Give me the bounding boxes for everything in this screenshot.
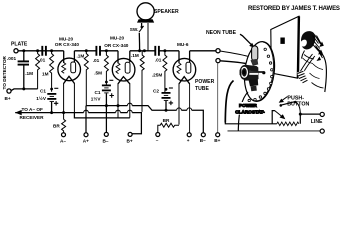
svg-text:RECEIVER: RECEIVER [20, 115, 45, 120]
wire motor lead right [238, 92, 248, 131]
node junction .5M [105, 49, 108, 52]
svg-text:A–: A– [60, 139, 66, 144]
svg-text:B+: B+ [214, 138, 220, 143]
power clarostat label [232, 102, 272, 115]
resistor power clarostat [277, 122, 299, 126]
wire B+ wire [11, 89, 37, 91]
svg-text:MU-6: MU-6 [177, 42, 189, 47]
svg-text:1½V: 1½V [36, 95, 47, 101]
resistor .1M plate load 1 [84, 51, 88, 106]
scanning disk [241, 40, 277, 103]
svg-text:OR CX-340: OR CX-340 [55, 42, 80, 47]
wire main plate wire segment 5 [159, 50, 179, 52]
tube V3 MU-6 power tube [173, 58, 196, 81]
capacitor .01 stage3 coupling [155, 46, 159, 56]
node neon connector upper [216, 49, 220, 53]
wire clarostat wiper [272, 111, 274, 124]
node junction 1M grid leak [50, 49, 53, 52]
resistor .1M plate load 2 [140, 51, 144, 112]
screen knob [280, 38, 284, 44]
node junction .001 [22, 49, 25, 52]
wire main plate wire segment 2 [74, 50, 96, 52]
wire line upper [300, 114, 320, 124]
svg-text:.5M: .5M [94, 71, 102, 76]
arrow push-button pointer [282, 97, 288, 101]
capacitor .001 [23, 51, 25, 61]
resistor .1M input shunt [36, 51, 40, 89]
svg-text:.01: .01 [39, 58, 46, 63]
wire bus B- / A+ (line1) [86, 106, 203, 133]
svg-text:B–: B– [103, 138, 109, 143]
svg-text:B+: B+ [5, 96, 11, 101]
node terminal LINE lower [320, 129, 324, 133]
wire A+ lead vertical [85, 106, 87, 133]
svg-text:POWER: POWER [195, 79, 215, 85]
capacitor .01 stage2 coupling [96, 46, 100, 56]
node junction cap bottom [22, 87, 25, 90]
svg-text:LINE: LINE [311, 119, 323, 125]
node junction tube1 left leg on bus [62, 111, 65, 114]
neon tube capsule [252, 46, 258, 61]
svg-text:CLAROSTAT-: CLAROSTAT- [235, 110, 265, 115]
svg-text:+: + [187, 138, 190, 143]
screen panel [271, 16, 299, 78]
svg-text:B+: B+ [127, 138, 133, 143]
svg-text:.01: .01 [155, 58, 162, 63]
capacitor C series .01 stage1 [42, 46, 46, 56]
svg-text:TO A– OF: TO A– OF [22, 107, 43, 112]
svg-text:PLATE: PLATE [11, 42, 28, 48]
node terminal B- right [201, 133, 205, 137]
wire bus filament (busC) [74, 112, 129, 118]
svg-text:MU-20: MU-20 [110, 36, 124, 41]
svg-text:.25M: .25M [152, 73, 163, 78]
node arrowhead to receiver [15, 110, 22, 115]
node terminal B+ right [216, 133, 220, 137]
wire bus A- (TO A- OF RECEIVER) [15, 113, 141, 134]
resistor BR left [62, 119, 66, 132]
resistor .25M grid leak 3 [163, 51, 167, 93]
node junction plate load 1 [85, 49, 88, 52]
svg-text:C1: C1 [95, 90, 101, 95]
wire B- lead vertical [105, 106, 107, 133]
node terminal B- left [104, 132, 108, 136]
svg-text:C1: C1 [40, 89, 46, 94]
node junction C1+ on bus [50, 111, 53, 114]
wire main plate wire segment 3 [100, 50, 118, 52]
node terminal LINE upper [320, 112, 324, 116]
node neon connector lower [216, 59, 220, 63]
wire line lower [228, 130, 321, 132]
svg-text:.1M: .1M [25, 71, 33, 76]
battery C2 bias cell [162, 92, 171, 94]
svg-text:OR CX-340: OR CX-340 [104, 43, 129, 48]
disk holes [248, 48, 273, 102]
wire B+ long vertical to neon [217, 63, 219, 133]
switch push-button [281, 102, 295, 106]
disk hub [262, 71, 265, 74]
battery C1 left bias cell [47, 93, 56, 95]
person viewer [297, 31, 326, 92]
node junction .25M [163, 49, 166, 52]
arrow neon tube pointer [240, 34, 252, 45]
node junction B- lead [105, 104, 108, 107]
node terminal B+ left [128, 132, 132, 136]
wire neon upper lead [220, 51, 252, 58]
svg-text:A+: A+ [83, 139, 89, 144]
wire neon lower lead [220, 61, 248, 64]
node terminal A+ [84, 133, 88, 137]
neon tube socket [252, 59, 259, 65]
node junction tube2 left leg [117, 104, 120, 107]
wire plate to neon upper [190, 50, 216, 52]
svg-text:BR: BR [163, 118, 170, 123]
svg-text:POWER: POWER [239, 103, 257, 108]
tube V2 MU-20 [112, 58, 135, 81]
svg-text:.001: .001 [7, 56, 17, 61]
svg-text:1M: 1M [42, 71, 49, 76]
node junction C2+ [165, 109, 168, 112]
wire motor lead left [225, 81, 233, 123]
svg-text:PUSH-: PUSH- [287, 95, 304, 101]
svg-text:SW.: SW. [130, 27, 139, 32]
svg-text:B–: B– [200, 138, 206, 143]
svg-text:TUBE: TUBE [195, 86, 209, 92]
resistor 1M grid leak [50, 51, 54, 92]
svg-text:NEON TUBE: NEON TUBE [206, 30, 237, 36]
svg-text:BR: BR [53, 123, 60, 128]
resistor .5M grid leak 2 [104, 51, 108, 85]
svg-text:RESTORED BY JAMES T. HAWES: RESTORED BY JAMES T. HAWES [248, 6, 340, 12]
wire main plate wire segment 4 [130, 50, 155, 52]
wire main plate wire segment 1 [18, 50, 64, 52]
svg-text:SPEAKER: SPEAKER [154, 9, 179, 15]
svg-text:.01: .01 [93, 58, 100, 63]
node terminal minus [156, 133, 160, 137]
node junction speaker right [143, 49, 146, 52]
tube V1 MU-20 [58, 58, 81, 81]
battery C1 middle bias cell [102, 84, 111, 86]
svg-text:–: – [156, 138, 159, 143]
svg-text:.1M: .1M [131, 53, 139, 58]
wire clarostat bus [225, 123, 276, 124]
svg-text:MU-20: MU-20 [59, 36, 73, 41]
node terminal A- [62, 133, 66, 137]
switch SW [139, 26, 144, 32]
node terminal plus [187, 133, 191, 137]
node junction speaker sw [138, 49, 141, 52]
node junction .1M input [36, 49, 39, 52]
speaker [137, 3, 154, 20]
motor [240, 59, 264, 91]
svg-text:C2: C2 [153, 89, 159, 94]
node PLATE terminal [14, 49, 18, 53]
svg-text:.1M: .1M [77, 53, 85, 58]
resistor BR right [158, 123, 179, 132]
node B+ terminal upper-left [7, 89, 11, 93]
svg-text:1½V: 1½V [91, 96, 102, 102]
